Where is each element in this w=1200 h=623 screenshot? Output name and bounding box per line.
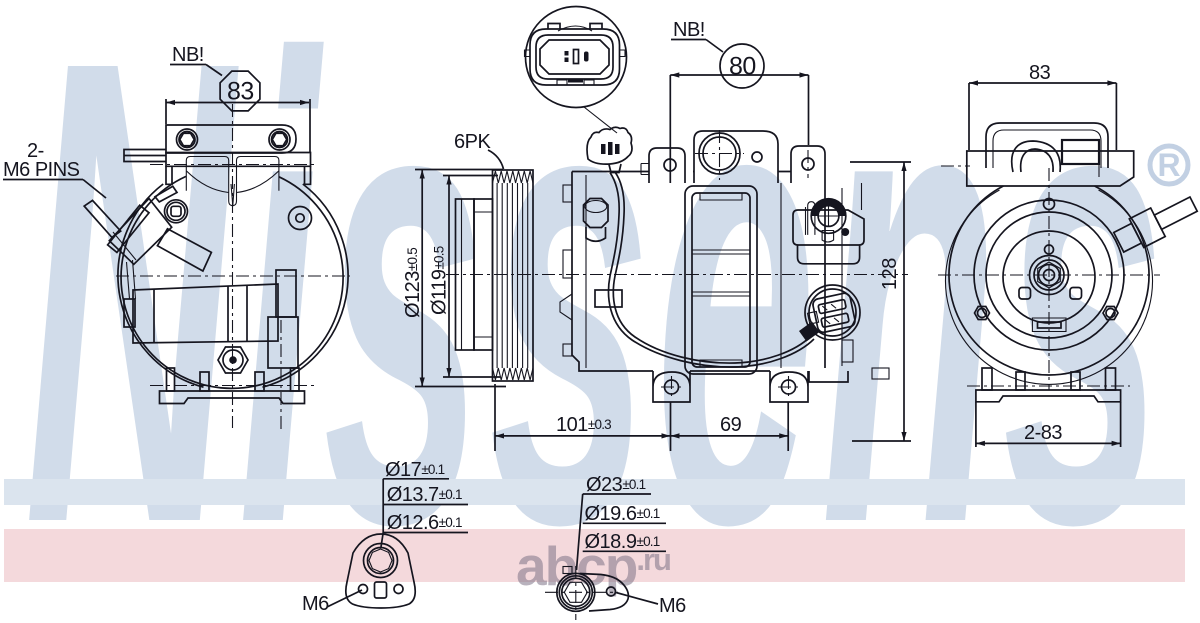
right view hub [1030,256,1069,295]
left view sensor probe [84,186,211,271]
svg-text:80: 80 [729,53,756,81]
right view connector block [1062,140,1099,164]
svg-text:Ø19.6±0.1: Ø19.6±0.1 [585,503,660,525]
svg-text:M6: M6 [659,595,686,617]
mid view control valve [793,183,864,264]
left view bracket dashed axis [150,164,318,166]
mid view rear port [805,285,860,340]
bracket detail 1 holes [359,585,368,594]
mid view centerline [446,274,908,276]
left view cylinder [133,284,278,343]
mid view dim 101 [494,384,496,451]
mid view body outline [572,172,889,383]
svg-text:2-83: 2-83 [1024,422,1062,444]
right view port fitting [1111,190,1200,257]
left view oil plug [218,347,248,373]
svg-text:M6 PINS: M6 PINS [3,159,80,181]
mid view foot left [653,371,690,387]
mid view body left tabs [560,185,572,356]
svg-text:Ø123±0.5: Ø123±0.5 [402,248,424,318]
mid view magnifier circle [526,7,627,108]
left strap bolt right [269,129,290,150]
mid view top lug right [791,146,825,183]
right view dim 83 [969,82,1116,84]
left view boss right [289,207,312,230]
svg-text:NB!: NB! [172,44,204,66]
svg-text:Ø13.7±0.1: Ø13.7±0.1 [387,484,462,506]
left strap bolt left [177,129,198,150]
right view wire loop [1012,141,1061,172]
bracket detail 2 outline [580,574,628,612]
bracket detail 1 bore [364,544,398,578]
left view feet [160,368,305,404]
svg-text:Ø12.6±0.1: Ø12.6±0.1 [387,512,462,534]
mid view balloon 80 [720,44,764,88]
right view centerlines [1048,168,1050,390]
mid view dim dia123 [421,170,423,387]
bracket detail 1 outline [346,534,415,608]
mid view grommet stud [584,199,609,228]
left view dim 83 [166,102,309,104]
right view small holes [975,199,1119,332]
left view compressor front outline [121,176,343,388]
mid view dim 80 [670,74,808,76]
mid view magnified connector [525,24,626,86]
left view vertical centerline [232,104,234,428]
right view top bracket [986,123,1108,168]
left view left tab [124,150,166,162]
bracket detail 2 crosshair [545,591,618,593]
svg-text:NB!: NB! [673,19,705,41]
svg-text:128: 128 [879,258,901,290]
right view main circles [946,186,1153,384]
mid view pulley front plate [456,199,475,350]
mid view dim 128 [903,162,905,441]
mid view head boss [694,131,778,183]
abcp.ru watermark [516,534,670,598]
left view bracket plate [166,153,311,167]
pink stripe band [4,529,1185,583]
left view right bar [276,270,296,317]
svg-text:M6: M6 [302,593,329,615]
left view sensor wires [127,262,130,299]
svg-text:83: 83 [1029,62,1051,84]
svg-text:Ø18.9±0.1: Ø18.9±0.1 [585,531,660,553]
left view mounting strap [166,125,296,153]
left view wing curves [186,157,234,206]
mid view wire harness [613,172,811,363]
right view dim 2-83 [975,402,977,447]
mid view cylinder tower [685,186,757,374]
svg-text:83: 83 [227,78,254,106]
svg-text:Ø119±0.5: Ø119±0.5 [429,246,451,315]
svg-text:Ø17±0.1: Ø17±0.1 [385,459,445,481]
left view horizontal centerline [116,275,350,277]
mid view pulley grooved band [493,170,534,381]
right view feet [976,368,1121,402]
mid view connector [587,127,632,164]
bracket detail 2 ear hole [607,587,616,596]
left view balloon 83 [220,71,260,111]
mid view top lug left [649,148,685,183]
svg-text:Ø23±0.1: Ø23±0.1 [586,474,646,496]
blue stripe band [4,479,1185,505]
svg-text:6PK: 6PK [454,131,491,153]
left view sensor bolt boss [165,200,188,223]
svg-text:69: 69 [720,414,742,436]
svg-text:101±0.3: 101±0.3 [556,414,611,436]
mid view foot right [770,371,808,387]
mid view dim dia119 [448,176,450,378]
right view top plate [967,151,1134,186]
